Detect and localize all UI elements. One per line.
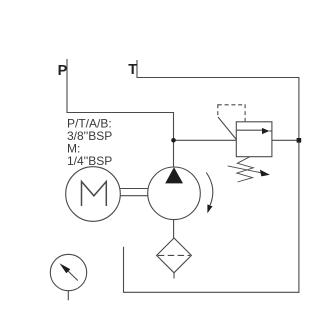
svg-text:T: T (128, 62, 137, 78)
svg-text:1/4''BSP: 1/4''BSP (67, 154, 112, 168)
svg-text:P: P (58, 63, 68, 79)
